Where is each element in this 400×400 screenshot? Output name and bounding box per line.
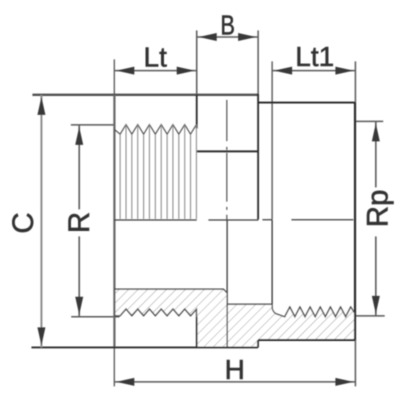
right external thread zigzag bbox=[276, 307, 355, 317]
bottom step vertical x=257.6 bbox=[257, 340, 259, 347]
thread start step with ear bbox=[272, 304, 276, 313]
arrow Lt right bbox=[177, 67, 195, 75]
middle bore bottom line y=303.8 bbox=[227, 303, 272, 305]
dimension Rp line lower bbox=[375, 236, 377, 316]
hatch fill bottom right wall bbox=[227, 304, 355, 347]
centerline dash-dot x=226.4 bbox=[226, 100, 228, 220]
vertical step left-middle x=196.3 top bbox=[196, 95, 198, 129]
arrow C top bbox=[37, 97, 45, 115]
arrow Rp top bbox=[372, 123, 380, 141]
thread flank vertical lines bbox=[120, 125, 196, 220]
arrow Rp bottom bbox=[372, 296, 380, 314]
arrow Lt1 left bbox=[274, 67, 292, 75]
extension line B right x=257.7 bbox=[257, 30, 259, 100]
extension line Rp bottom y=315.5 bbox=[355, 315, 384, 317]
insert top edge line y=151 bbox=[197, 150, 259, 152]
insert bottom zigzag bbox=[114, 309, 196, 317]
top outline right section y=102.1 bbox=[258, 102, 355, 104]
dimension Rp line upper bbox=[375, 121, 377, 187]
dimension R line lower bbox=[78, 236, 80, 316]
insert outline top y=288.7 bbox=[114, 289, 227, 293]
arrow R bottom bbox=[75, 297, 83, 315]
bore silhouette line y=219.6 middle bbox=[208, 219, 258, 221]
thread end line x=271.7 bottom bbox=[271, 220, 273, 304]
dimension Lt1 line bbox=[272, 70, 355, 72]
extension line right edge x=355 bbox=[354, 61, 356, 386]
bottom step vertical x=196.3 bbox=[196, 317, 198, 348]
dimension B line bbox=[197, 36, 258, 38]
arrow C bottom bbox=[37, 327, 45, 345]
extension line R top y=124.4 bbox=[71, 124, 115, 126]
extension line Rp top y=121 bbox=[355, 120, 383, 122]
extension line R bottom y=316.3 bbox=[71, 316, 119, 318]
svg-text:Lt1: Lt1 bbox=[295, 41, 334, 72]
svg-text:H: H bbox=[225, 354, 245, 385]
svg-text:Lt: Lt bbox=[144, 41, 168, 72]
arrow R top bbox=[75, 127, 83, 145]
dimension R line upper bbox=[78, 125, 80, 210]
arrow Lt1 right bbox=[335, 67, 353, 75]
svg-text:Rp: Rp bbox=[361, 190, 394, 228]
arrow Lt left bbox=[116, 67, 134, 75]
extension line Lt1 left x=271.7 bbox=[271, 61, 273, 219]
left body edge x=113.9 bbox=[113, 95, 115, 348]
hatch fill insert band left bbox=[114, 289, 227, 347]
svg-text:C: C bbox=[7, 212, 40, 233]
bore silhouette line y=219.6 left bbox=[114, 219, 196, 221]
arrow B left bbox=[199, 33, 217, 41]
arrow H right bbox=[335, 378, 353, 386]
dimension C line bbox=[40, 95, 42, 348]
arrow B right bbox=[238, 33, 256, 41]
dimension H line bbox=[114, 381, 355, 383]
centerline dashes y=219 right bbox=[262, 219, 353, 221]
top-left thread zigzag bbox=[114, 125, 196, 135]
bore corner vertical x=226.7 bottom bbox=[226, 220, 228, 347]
dimension Lt line bbox=[114, 70, 196, 72]
extension line B left x=196.3 bbox=[196, 30, 198, 94]
bottom outline left y=347 with C extension bbox=[31, 346, 258, 348]
bottom outline right y=339.6 bbox=[258, 339, 355, 341]
arrow H left bbox=[116, 378, 134, 386]
svg-text:B: B bbox=[220, 10, 235, 41]
right body edge x=354.5 bbox=[354, 103, 356, 341]
step edge vertical x=257.7 bbox=[257, 94, 259, 220]
top outline y=94.4 with C extension bbox=[32, 94, 258, 96]
svg-text:R: R bbox=[63, 212, 96, 233]
extension line left edge x=113.9 bbox=[113, 59, 115, 386]
